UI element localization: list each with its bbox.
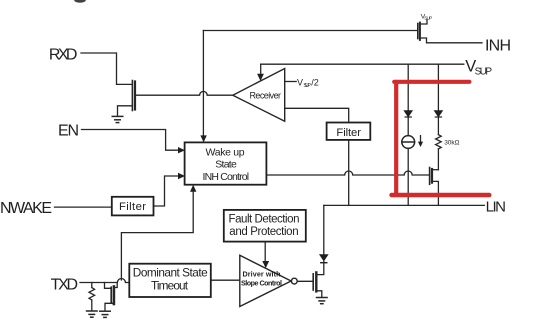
svg-text:LIN: LIN <box>486 198 506 215</box>
svg-text:Wake up: Wake up <box>206 147 245 159</box>
svg-text:/2: /2 <box>311 77 319 87</box>
svg-text:SUP: SUP <box>303 83 311 89</box>
svg-text:State: State <box>215 159 237 171</box>
svg-text:Timeout: Timeout <box>151 279 189 293</box>
svg-text:Fault Detection: Fault Detection <box>229 214 300 226</box>
svg-text:Slope Control: Slope Control <box>241 279 282 288</box>
svg-text:RXD: RXD <box>49 46 78 63</box>
svg-text:and Protection: and Protection <box>229 226 298 238</box>
svg-text:Filter: Filter <box>336 127 361 139</box>
svg-text:SUP: SUP <box>475 66 493 77</box>
svg-text:Receiver: Receiver <box>250 90 282 100</box>
svg-text:NWAKE: NWAKE <box>0 200 52 217</box>
svg-text:V: V <box>297 77 303 87</box>
svg-text:TXD: TXD <box>51 277 79 294</box>
svg-text:30kΩ: 30kΩ <box>444 140 459 147</box>
svg-text:INH: INH <box>485 37 511 54</box>
svg-text:Driver with: Driver with <box>243 269 281 278</box>
svg-text:EN: EN <box>58 123 79 140</box>
svg-text:Dominant State: Dominant State <box>133 266 208 280</box>
svg-text:INH Control: INH Control <box>203 171 250 183</box>
svg-text:SUP: SUP <box>424 16 432 21</box>
svg-text:Filter: Filter <box>119 201 146 213</box>
